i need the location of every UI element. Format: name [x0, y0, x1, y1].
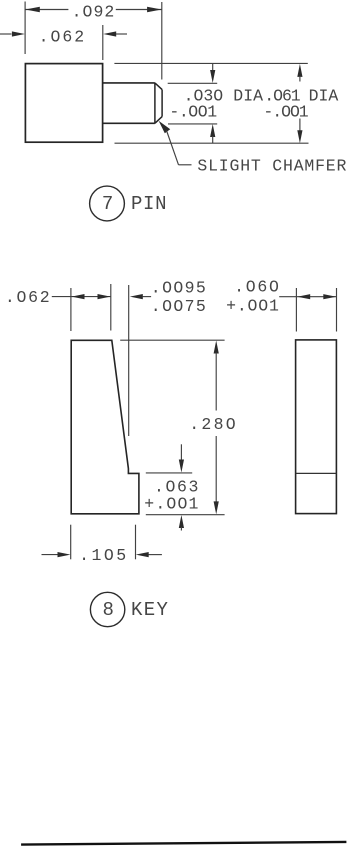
extension line right of .062: [102, 25, 104, 60]
key: extension line left edge: [70, 288, 72, 331]
chamfer leader diagonal: [167, 131, 179, 165]
key: arrowhead .060 right: [323, 294, 336, 299]
dimension line .062 left tail: [0, 33, 12, 35]
extension line shaft bottom extended right: [168, 123, 217, 125]
svg-text:KEY: KEY: [131, 599, 168, 621]
dim .280 top arrowhead: [214, 341, 219, 354]
key: dim line .060: [279, 296, 336, 298]
svg-text:.OO75: .OO75: [151, 297, 206, 316]
dim .280 bottom arrowhead: [214, 501, 219, 514]
svg-text:DIA: DIA: [309, 86, 339, 105]
chamfer leader arrowhead: [159, 121, 171, 134]
key: extension line rect right: [336, 288, 338, 332]
dim .061 bottom line: [299, 119, 301, 132]
dim .105 right arrowhead: [136, 552, 149, 557]
dim .030 bottom arrowhead: [210, 124, 215, 137]
dim .105 left arrowhead: [58, 552, 71, 557]
svg-text:.O62: .O62: [5, 288, 50, 307]
key: arrowhead .0095: [130, 294, 143, 299]
dim .280 bottom line: [215, 436, 217, 502]
svg-text:.O62: .O62: [39, 28, 85, 47]
extension line .280 bottom: [146, 514, 225, 516]
dim .061 top arrowhead: [297, 64, 302, 77]
dim .063 bottom arrow line: [180, 527, 182, 531]
key: dim line .062: [52, 296, 111, 298]
pin head outline: [25, 64, 102, 143]
key side view step line: [296, 472, 337, 474]
pin chamfer bottom diagonal: [155, 117, 162, 124]
svg-text:+.OO1: +.OO1: [144, 494, 198, 513]
pin chamfer start vertical: [154, 83, 156, 123]
arrowhead .092 right: [147, 7, 162, 12]
extension line .063 step: [146, 472, 192, 474]
pin shaft top edge: [103, 82, 155, 84]
svg-text:.O92: .O92: [72, 2, 115, 21]
balloon circle 7: [90, 186, 125, 221]
dim .030 top arrowhead: [210, 70, 215, 83]
svg-text:-.OO1: -.OO1: [169, 103, 217, 122]
pin chamfer top diagonal: [155, 83, 162, 90]
extension line head top extended right: [114, 62, 307, 64]
svg-text:.1O5: .1O5: [79, 546, 126, 565]
svg-text:PIN: PIN: [131, 193, 167, 215]
svg-text:-.OO1: -.OO1: [263, 103, 308, 122]
extension line head bottom extended right: [115, 142, 309, 144]
key: arrowhead .062 left: [72, 294, 85, 299]
svg-text:7: 7: [102, 193, 113, 215]
key: extension line slant bottom: [128, 285, 130, 436]
extension line .105 left: [70, 525, 72, 560]
svg-text:SLIGHT CHAMFER: SLIGHT CHAMFER: [197, 157, 346, 176]
key: arrowhead .062 right: [98, 294, 111, 299]
key: extension line rect left: [295, 288, 297, 332]
arrowhead .062 right: [103, 31, 116, 36]
extension line right of .092: [161, 2, 163, 80]
key: arrowhead .060 left: [297, 294, 310, 299]
arrowhead .062 left: [12, 31, 25, 36]
svg-text:+.OO1: +.OO1: [226, 296, 279, 315]
svg-text:.O6O: .O6O: [234, 278, 279, 297]
dim .063 bottom arrowhead: [179, 515, 184, 528]
arrowhead .092 left: [25, 7, 40, 12]
extension line left of .092/.062: [24, 2, 26, 55]
dimension line .062 right tail: [116, 33, 127, 35]
key: extension line slant top: [110, 284, 112, 331]
extension line shaft top extended right: [168, 82, 218, 84]
svg-text:.28O: .28O: [189, 415, 235, 434]
svg-text:DIA: DIA: [233, 86, 263, 105]
pin shaft bottom edge: [103, 122, 155, 124]
dim .061 top line: [299, 76, 301, 82]
key body outline: [71, 340, 139, 514]
svg-text:8: 8: [103, 599, 114, 621]
dim .105 right tail: [149, 554, 162, 556]
pin end face: [161, 90, 163, 117]
dim .030 top arrow line: [212, 63, 214, 72]
extension line .280 top: [120, 339, 224, 341]
dim .063 top arrowhead: [179, 460, 184, 473]
dim .030 bottom arrow line: [212, 136, 214, 143]
dim .105 left tail: [42, 554, 59, 556]
dim .063 top arrow line: [180, 444, 182, 461]
balloon circle 8: [90, 592, 124, 626]
dim .061 bottom arrowhead: [297, 130, 302, 143]
extension line .105 right: [135, 525, 137, 560]
svg-text:.OO95: .OO95: [151, 278, 206, 297]
bottom border line: [21, 842, 346, 845]
key side view rectangle: [296, 340, 337, 514]
dim .280 top line: [215, 353, 217, 411]
dimension line .092: [25, 9, 68, 11]
chamfer leader horizontal: [179, 164, 192, 166]
key: dim tail .0095: [143, 296, 152, 298]
